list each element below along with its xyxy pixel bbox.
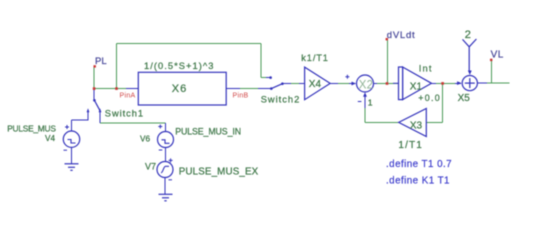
svg-text:X2: X2 xyxy=(359,80,373,92)
svg-text:X5: X5 xyxy=(458,93,471,104)
svg-text:.define K1 T1: .define K1 T1 xyxy=(386,175,450,186)
svg-text:PL: PL xyxy=(95,56,107,67)
svg-text:Switch1: Switch1 xyxy=(105,108,144,118)
svg-text:X4: X4 xyxy=(309,79,322,90)
svg-text:PULSE_MUS_EX: PULSE_MUS_EX xyxy=(179,167,259,178)
svg-text:V6: V6 xyxy=(140,134,150,143)
svg-text:PinA: PinA xyxy=(120,93,136,100)
svg-text:V4: V4 xyxy=(45,134,55,143)
svg-text:1/T1: 1/T1 xyxy=(398,140,423,151)
svg-text:Int: Int xyxy=(419,64,433,74)
svg-text:2: 2 xyxy=(465,29,471,41)
svg-text:1: 1 xyxy=(368,98,373,108)
svg-text:VL: VL xyxy=(491,50,504,61)
svg-text:X6: X6 xyxy=(172,83,187,95)
svg-text:Switch2: Switch2 xyxy=(261,94,301,104)
svg-text:1/(0.5*S+1)^3: 1/(0.5*S+1)^3 xyxy=(144,61,214,71)
svg-text:PinB: PinB xyxy=(233,93,249,100)
svg-text:k1/T1: k1/T1 xyxy=(301,53,329,63)
svg-text:+0.0: +0.0 xyxy=(418,93,441,103)
svg-text:PULSE_MUS: PULSE_MUS xyxy=(7,123,56,133)
svg-text:.define T1 0.7: .define T1 0.7 xyxy=(386,159,452,170)
svg-text:X3: X3 xyxy=(410,121,423,132)
svg-text:X1: X1 xyxy=(410,82,423,93)
svg-text:V7: V7 xyxy=(145,162,156,172)
svg-text:dVLdt: dVLdt xyxy=(387,30,416,41)
svg-text:PULSE_MUS_IN: PULSE_MUS_IN xyxy=(175,127,241,137)
